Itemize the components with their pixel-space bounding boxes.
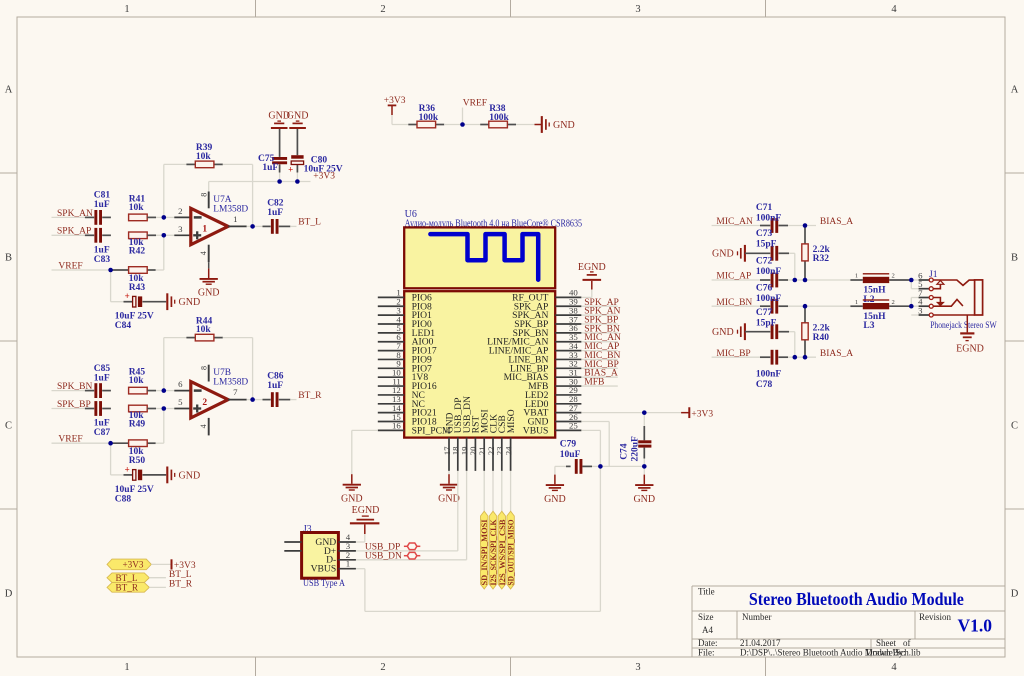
capacitor C72: [771, 273, 774, 288]
wire: [581, 296, 591, 298]
connector J3 pin 1 VBUS: [311, 559, 356, 575]
capacitor C88: [133, 470, 136, 481]
svg-text:BIAS_A: BIAS_A: [820, 349, 853, 359]
svg-text:100k: 100k: [489, 113, 509, 123]
capacitor C77 leads: [745, 331, 770, 333]
connector J1 sleeve contact (pin 3): [933, 314, 974, 316]
power port +3V3 right: [681, 407, 713, 419]
wire USB_DN vertical: [466, 471, 468, 560]
IC U6 pin 38 SPK_AN: [512, 305, 581, 321]
wire: [156, 216, 164, 218]
wire: [911, 305, 918, 307]
capacitor C73 leads: [745, 252, 770, 254]
ground left of U6: [341, 474, 363, 504]
junction C79/VBUS: [598, 464, 603, 469]
resistor R32: [802, 244, 808, 261]
wire: [600, 465, 644, 467]
connector J1 switch contact (pin 7): [933, 298, 940, 303]
wire: [463, 124, 481, 126]
wire: [555, 465, 566, 467]
junction R40/MIC_BP: [803, 355, 808, 360]
title block labels: [698, 587, 952, 658]
svg-text:5: 5: [178, 397, 183, 407]
resistor R40: [802, 323, 808, 340]
capacitor C79 leads: [566, 465, 571, 467]
svg-text:1uF: 1uF: [94, 200, 110, 210]
capacitor C79: [575, 459, 578, 474]
svg-text:SD_OUT/SPI_MISO: SD_OUT/SPI_MISO: [507, 520, 516, 586]
svg-text:BT_L: BT_L: [116, 573, 138, 583]
svg-text:V1.0: V1.0: [957, 616, 992, 636]
wire: [163, 164, 165, 217]
svg-text:3: 3: [635, 4, 640, 15]
op-amp U7B output pin 7: [228, 399, 247, 401]
wire net label stub: [581, 385, 617, 387]
IC U6 pin 10 1V8: [378, 367, 429, 383]
svg-text:1uF: 1uF: [94, 419, 110, 429]
port BT_R: [107, 583, 149, 593]
junction R40/MIC_BN: [803, 304, 808, 309]
op-amp U7B minus symbol: [194, 389, 202, 392]
wire VBUS: [581, 429, 600, 431]
wire to port: [483, 471, 485, 511]
IC U6 pin 17 GND: [442, 412, 456, 470]
svg-text:GND: GND: [198, 288, 220, 299]
svg-text:BT_R: BT_R: [169, 580, 193, 590]
svg-text:MFB: MFB: [584, 377, 604, 388]
svg-text:8: 8: [199, 193, 208, 197]
svg-text:Phonejack Stereo SW: Phonejack Stereo SW: [930, 321, 997, 331]
op-amp U7B pin 5: [174, 408, 191, 410]
wire: [110, 443, 112, 475]
op-amp U7A plus symbol: [193, 234, 201, 236]
wire: [643, 459, 645, 475]
capacitor C71: [771, 218, 774, 233]
svg-text:Drawn By:: Drawn By:: [866, 648, 906, 658]
inductor L3: [863, 299, 889, 309]
wire to port: [492, 471, 494, 511]
resistor R36 leads: [408, 124, 417, 126]
svg-text:2: 2: [202, 398, 207, 408]
power port +3V3 top: [384, 96, 406, 115]
svg-text:of: of: [903, 638, 911, 648]
svg-text:Number: Number: [742, 612, 772, 622]
svg-text:GND: GND: [712, 249, 734, 260]
wire: [156, 390, 164, 392]
IC U6 pin 22 CLK: [486, 414, 500, 471]
op-amp U7B pin 6: [174, 390, 191, 392]
wire: [147, 408, 156, 410]
IC U6 pin 12 NC: [378, 385, 425, 401]
connector J1 pin 7: [918, 288, 933, 300]
resistor R40 leads: [804, 306, 806, 323]
wire: [111, 474, 124, 476]
wire: [156, 408, 164, 410]
wire: [356, 568, 365, 570]
wire pin26 GND: [581, 421, 609, 423]
svg-text:C83: C83: [94, 255, 111, 265]
capacitor C82: [271, 219, 274, 234]
port I2S_WS/SPI_CSB: [498, 511, 507, 589]
svg-text:1: 1: [124, 4, 129, 15]
resistor R39 leads: [186, 163, 195, 165]
wire: [788, 225, 816, 227]
svg-text:24: 24: [503, 446, 513, 455]
differential pair directive USB_DP: [404, 543, 420, 550]
op-amp U7A pin 3: [174, 234, 191, 236]
wire: [391, 115, 393, 125]
wire: [147, 390, 156, 392]
svg-text:GND: GND: [341, 493, 363, 504]
svg-text:100nF: 100nF: [756, 213, 782, 223]
capacitor C87: [94, 401, 97, 416]
IC U6 antenna trace: [430, 234, 538, 280]
IC U6 pin 19 USB_DN: [459, 396, 473, 471]
inductor L2: [863, 273, 889, 283]
wire: [156, 442, 164, 444]
junction VREF: [108, 441, 113, 446]
capacitor C83 leads: [85, 234, 94, 236]
op-amp U7B pin 8 stub: [208, 365, 210, 382]
wire: [164, 337, 187, 339]
wire: [252, 338, 254, 400]
svg-text:10k: 10k: [196, 325, 212, 335]
wire: [164, 163, 187, 165]
svg-text:C78: C78: [756, 380, 773, 390]
capacitor C80: [291, 155, 303, 159]
svg-text:R43: R43: [129, 283, 146, 293]
junction R32/MIC_AP: [803, 278, 808, 283]
svg-text:VBUS: VBUS: [523, 425, 549, 436]
IC U6 antenna box: [404, 227, 555, 288]
IC U6 pin 39 SPK_AP: [514, 297, 582, 313]
connector J1 pin 4: [918, 297, 933, 309]
junction VREF divider: [460, 122, 465, 127]
op-amp U7A pin 2: [174, 216, 191, 218]
connector J3 pin 3 D+: [324, 541, 356, 557]
wire: [788, 305, 850, 307]
connector J3 pin 4 GND: [315, 532, 355, 548]
svg-text:BT_L: BT_L: [169, 570, 192, 580]
wire net label stub: [581, 323, 617, 325]
svg-text:10k: 10k: [129, 203, 145, 213]
IC U6 pin 9 PIO7: [378, 359, 432, 375]
svg-text:GND: GND: [438, 493, 460, 504]
wire: [794, 332, 796, 358]
svg-text:+: +: [125, 291, 130, 301]
wire USB_DP: [356, 550, 458, 552]
svg-text:8: 8: [199, 366, 208, 370]
ground above C80: [287, 111, 309, 128]
junction C75/+3V3: [277, 179, 282, 184]
IC U6 pin 14 PIO21: [378, 403, 437, 419]
junction C77/MIC_BP: [793, 355, 798, 360]
svg-text:Revision: Revision: [919, 612, 952, 622]
wire: [356, 541, 365, 543]
junction SPK_BN: [162, 388, 167, 393]
wire: [111, 301, 124, 303]
wire to J1 pin 3: [911, 314, 918, 316]
junction C73/MIC_AP: [793, 278, 798, 283]
ground below U7A: [198, 268, 220, 298]
wire: [712, 279, 760, 281]
svg-text:EGND: EGND: [352, 505, 380, 516]
IC U6 pin 7 PIO17: [378, 341, 437, 357]
resistor R41: [129, 214, 148, 221]
ground right of R38: [542, 116, 575, 133]
wire: [163, 338, 165, 391]
wire: [253, 225, 263, 227]
svg-text:SD_IN/SPI_MOSI: SD_IN/SPI_MOSI: [480, 520, 489, 586]
svg-text:1uF: 1uF: [262, 163, 278, 173]
svg-text:1uF: 1uF: [94, 373, 110, 383]
wire: [911, 297, 918, 299]
port I2S_SCK/SPI_CLK: [489, 511, 498, 589]
wire: [52, 216, 85, 218]
svg-text:2: 2: [892, 273, 895, 280]
svg-text:BT_R: BT_R: [116, 583, 139, 593]
svg-text:100k: 100k: [419, 113, 439, 123]
inductor L3 pin numbers: [855, 299, 895, 306]
svg-text:+: +: [288, 165, 293, 175]
wire: [516, 124, 535, 126]
wire: [794, 253, 796, 280]
connector J3 body: [302, 533, 339, 579]
wire net label stub: [581, 332, 617, 334]
wire net label stub: [581, 305, 617, 307]
svg-text:Stereo Bluetooth Audio Module: Stereo Bluetooth Audio Module: [749, 589, 964, 609]
svg-text:B: B: [5, 253, 12, 264]
svg-text:GND: GND: [179, 470, 201, 481]
svg-text:EGND: EGND: [956, 344, 984, 355]
junction C80/+3V3: [295, 179, 300, 184]
resistor R39: [195, 161, 214, 168]
svg-text:1: 1: [346, 559, 350, 569]
capacitor C83: [94, 228, 97, 243]
wire: [223, 163, 253, 165]
resistor R38 leads: [480, 124, 489, 126]
svg-text:A4: A4: [702, 625, 713, 635]
resistor R44 leads: [186, 337, 195, 339]
power port +3V3: [172, 559, 196, 571]
wire: [290, 399, 296, 401]
capacitor C73: [771, 246, 774, 261]
svg-text:100nF: 100nF: [756, 294, 782, 304]
svg-text:2: 2: [380, 662, 385, 673]
svg-text:220uF: 220uF: [631, 436, 641, 462]
wire: [462, 108, 464, 125]
svg-text:4: 4: [891, 662, 897, 673]
earth ground EGND at RF_OUT: [578, 262, 606, 290]
junction SPK_AP: [162, 233, 167, 238]
ground above C75: [268, 111, 290, 128]
svg-text:10uF: 10uF: [560, 450, 581, 460]
wire: [351, 430, 353, 474]
svg-text:C88: C88: [115, 494, 132, 504]
connector J1 pin 3: [918, 305, 933, 317]
svg-text:R50: R50: [129, 456, 146, 466]
svg-text:10k: 10k: [129, 376, 145, 386]
connector J1 pin 5: [918, 279, 933, 291]
svg-text:C77: C77: [756, 308, 773, 318]
IC U6 pin 40 RF_OUT: [512, 288, 581, 304]
svg-text:B: B: [1011, 253, 1018, 264]
wire: [164, 234, 175, 236]
IC U6 pin 5 LED1: [378, 323, 435, 339]
resistor R44: [195, 334, 214, 341]
svg-text:C71: C71: [756, 203, 773, 213]
IC U6 pin 2 PIO8: [378, 297, 432, 313]
op-amp U7A output pin 1: [228, 225, 247, 227]
wire: [52, 234, 85, 236]
svg-text:+3V3: +3V3: [122, 560, 143, 570]
svg-text:6: 6: [178, 379, 183, 389]
op-amp U7B: [191, 382, 228, 418]
svg-text:C72: C72: [756, 256, 773, 266]
wire: [208, 182, 210, 192]
svg-text:C85: C85: [94, 364, 111, 374]
wire: [608, 422, 610, 467]
capacitor C84 leads: [124, 301, 133, 303]
wire: [253, 399, 263, 401]
wire VBAT +3V3: [581, 412, 681, 414]
IC U6 pin 37 SPK_BP: [514, 314, 581, 330]
wire: [247, 399, 253, 401]
svg-text:GND: GND: [179, 297, 201, 308]
junction C74/+3V3: [642, 410, 647, 415]
wire VBUS bottom: [365, 610, 601, 612]
svg-text:R49: R49: [129, 420, 146, 430]
capacitor 100nF: [771, 350, 774, 365]
junction MIC_AN/BIAS_A: [803, 223, 808, 228]
wire: [151, 563, 171, 565]
svg-text:MISO: MISO: [506, 409, 517, 433]
svg-text:15pF: 15pF: [756, 240, 777, 250]
svg-text:EGND: EGND: [578, 262, 606, 273]
wire USB_DN: [356, 559, 467, 561]
wire: [52, 269, 111, 271]
svg-text:10uF 25V: 10uF 25V: [115, 485, 154, 495]
op-amp U7A pin 4 stub: [208, 245, 210, 263]
connector J1 ring contact (pin 4): [933, 300, 963, 307]
junction output: [250, 224, 255, 229]
junction C74/GND: [642, 464, 647, 469]
wire: [156, 269, 164, 271]
capacitor C80 leads: [296, 129, 298, 155]
capacitor C72 leads: [760, 279, 770, 281]
svg-text:2: 2: [892, 299, 895, 306]
svg-text:10uF 25V: 10uF 25V: [304, 164, 343, 174]
wire: [643, 413, 645, 426]
resistor R42: [129, 232, 148, 239]
ground left of C77: [712, 323, 745, 340]
svg-text:GND: GND: [553, 120, 575, 131]
svg-text:2: 2: [178, 206, 182, 216]
wire: [910, 280, 912, 289]
junction VREF: [108, 268, 113, 273]
wire: [149, 586, 166, 588]
port SD_IN/SPI_MOSI: [480, 511, 489, 589]
wire: [147, 216, 156, 218]
connector J3 shield pin: [284, 550, 301, 552]
resistor R36: [417, 121, 436, 128]
svg-text:Date:: Date:: [698, 638, 718, 648]
svg-text:100nF: 100nF: [756, 370, 782, 380]
svg-text:1: 1: [202, 225, 207, 235]
svg-text:10uF 25V: 10uF 25V: [115, 312, 154, 322]
svg-text:1: 1: [124, 662, 129, 673]
svg-text:VREF: VREF: [58, 261, 82, 271]
capacitor C74: [638, 440, 651, 447]
capacitor C88 leads: [124, 474, 133, 476]
wire VBUS to J3: [364, 569, 366, 612]
wire: [788, 279, 850, 281]
wire to port: [510, 471, 512, 511]
wire: [252, 164, 254, 226]
svg-text:16: 16: [392, 421, 401, 431]
svg-text:A: A: [5, 85, 13, 96]
IC U6 pin 28 LED0: [525, 394, 581, 410]
IC U6 pin 20 RST: [468, 416, 482, 471]
svg-text:VBUS: VBUS: [311, 564, 337, 575]
svg-text:BT_L: BT_L: [298, 218, 321, 228]
IC U6 pin 3 PIO1: [378, 305, 432, 321]
svg-text:D: D: [5, 589, 13, 600]
svg-text:C84: C84: [115, 321, 132, 331]
svg-text:File:: File:: [698, 648, 715, 658]
svg-text:R40: R40: [813, 333, 830, 343]
wire: [163, 409, 165, 444]
svg-text:GND: GND: [287, 111, 309, 122]
svg-text:I2S_WS/SPI_CSB: I2S_WS/SPI_CSB: [498, 519, 507, 586]
svg-text:VREF: VREF: [58, 435, 82, 445]
svg-text:BT_R: BT_R: [298, 391, 322, 401]
svg-text:C79: C79: [560, 439, 577, 449]
wire: [364, 534, 366, 542]
wire USB_DP vertical: [457, 471, 459, 551]
wire: [712, 305, 760, 307]
capacitor C81: [94, 210, 97, 225]
IC U6 pin 26 GND: [528, 412, 582, 428]
ground below C79: [544, 475, 566, 505]
resistor R50: [129, 440, 148, 447]
wire net label stub: [581, 341, 617, 343]
IC U6 pin 13 NC: [378, 394, 425, 410]
port BT_L: [107, 573, 149, 583]
wire: [712, 356, 760, 358]
IC U6 pin 27 VBAT: [523, 403, 581, 419]
junction L3 output: [909, 304, 914, 309]
svg-text:I2S_SCK/SPI_CLK: I2S_SCK/SPI_CLK: [489, 519, 498, 586]
svg-text:C87: C87: [94, 428, 111, 438]
svg-text:MIC_BP: MIC_BP: [716, 349, 750, 359]
wire: [591, 290, 593, 298]
earth ground EGND at J3: [350, 505, 380, 534]
svg-text:15pF: 15pF: [756, 318, 777, 328]
svg-text:1uF: 1uF: [267, 208, 283, 218]
wire net label stub: [581, 367, 617, 369]
svg-text:3: 3: [918, 305, 923, 315]
wire: [147, 234, 156, 236]
svg-text:Sheet: Sheet: [876, 638, 896, 648]
inductor L2 pin numbers: [855, 273, 895, 280]
capacitor C77: [771, 324, 774, 339]
inductor L2 leads: [850, 279, 862, 281]
svg-text:1: 1: [855, 299, 858, 306]
svg-text:+3V3: +3V3: [691, 409, 713, 419]
earth ground EGND below J1: [956, 315, 984, 355]
svg-text:25: 25: [569, 421, 578, 431]
